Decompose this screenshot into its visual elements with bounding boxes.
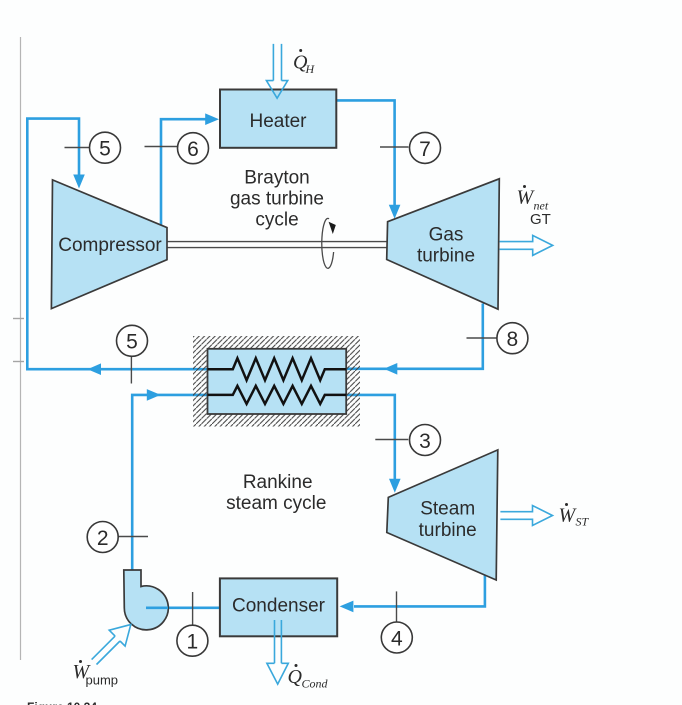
svg-text:H: H [305,62,316,76]
svg-text:GT: GT [530,211,551,228]
svg-text:turbine: turbine [419,520,477,541]
svg-text:2: 2 [97,527,109,550]
svg-text:Q: Q [288,666,303,688]
svg-text:Brayton: Brayton [244,168,309,189]
svg-text:gas turbine: gas turbine [230,189,324,210]
svg-text:pump: pump [86,673,119,688]
svg-text:Rankine: Rankine [243,472,313,493]
svg-text:5: 5 [99,138,111,161]
svg-text:3: 3 [419,430,431,453]
svg-text:Figure 10.24: Figure 10.24 [27,700,97,705]
svg-text:Cond: Cond [302,677,329,691]
svg-text:Compressor: Compressor [58,235,162,256]
svg-text:Condenser: Condenser [232,596,326,617]
svg-text:Gas: Gas [429,225,464,246]
svg-text:8: 8 [507,328,519,351]
svg-text:cycle: cycle [255,210,298,231]
svg-text:Steam: Steam [420,499,475,520]
svg-text:5: 5 [126,331,138,354]
svg-text:ST: ST [576,515,590,529]
svg-text:4: 4 [391,627,403,650]
svg-text:Heater: Heater [249,111,307,132]
svg-text:turbine: turbine [417,246,475,267]
svg-text:7: 7 [419,138,431,161]
svg-text:6: 6 [187,138,199,161]
svg-text:steam cycle: steam cycle [226,493,326,514]
svg-text:1: 1 [187,631,199,654]
